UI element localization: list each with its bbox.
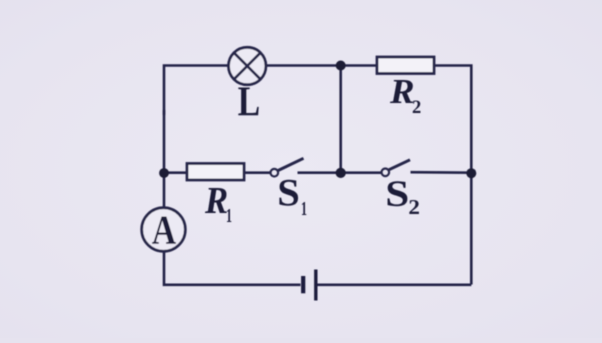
wire middle node to S2 — [341, 171, 382, 174]
wire S1 to middle node — [298, 171, 341, 174]
resistor R2 — [377, 57, 434, 74]
wire left vertical lower (ammeter to bottom corner) — [164, 252, 301, 285]
lamp L (circle with X) — [229, 47, 266, 84]
wire left vertical upper (corner to middle node to ammeter) — [163, 110, 166, 208]
battery long plate — [314, 270, 317, 301]
node top junction — [336, 61, 346, 71]
svg-text:S: S — [385, 173, 409, 215]
wire R1 to S1 — [244, 171, 271, 174]
svg-text:S: S — [277, 171, 300, 214]
svg-text:1: 1 — [301, 197, 307, 220]
wire R2 to top-right corner, right vertical — [434, 66, 471, 285]
svg-text:R: R — [204, 178, 228, 221]
node right-middle junction — [466, 168, 476, 178]
svg-text:2: 2 — [408, 195, 420, 219]
wire lamp to top junction — [266, 64, 341, 67]
battery short plate — [301, 276, 305, 293]
battery cell — [303, 270, 316, 301]
wire battery to bottom-right corner — [318, 283, 472, 286]
svg-text:A: A — [152, 207, 177, 253]
resistor R1 — [187, 164, 244, 181]
svg-text:L: L — [238, 79, 260, 126]
wire left node to R1 — [164, 171, 187, 174]
svg-text:R: R — [389, 72, 415, 111]
switch S1 — [271, 158, 304, 176]
node left-middle junction — [159, 168, 169, 178]
node middle junction (S1/S2) — [336, 168, 346, 178]
svg-text:1: 1 — [226, 204, 232, 227]
wire top junction to R2 — [341, 64, 377, 67]
switch S2 — [382, 160, 411, 176]
wire top-left horizontal — [164, 66, 229, 116]
wire middle vertical (top junction down to S1/S2 node) — [339, 66, 342, 173]
ammeter A — [142, 208, 186, 252]
svg-text:2: 2 — [412, 98, 421, 118]
wire S2 to right node — [411, 171, 472, 174]
